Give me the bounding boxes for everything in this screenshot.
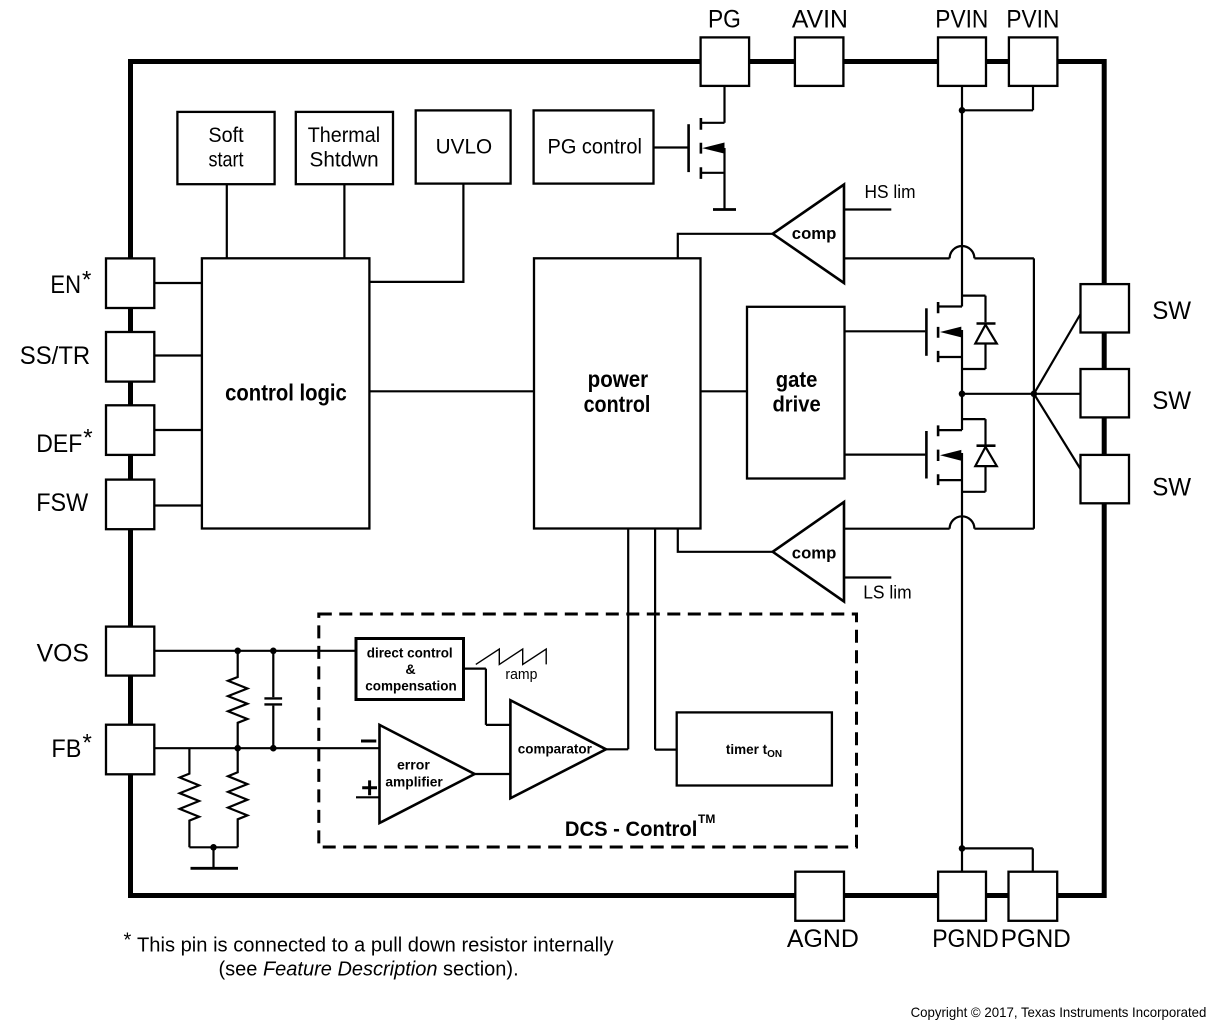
transistor Q1 channel bars: [700, 118, 703, 179]
svg-text:FB: FB: [51, 735, 81, 763]
transistor Q3 channel bars: [937, 425, 940, 485]
pin FSW: [106, 480, 154, 530]
svg-text:This pin is connected to a pul: This pin is connected to a pull down res…: [137, 934, 614, 956]
svg-text:gate: gate: [776, 367, 818, 392]
pin VOS: [106, 627, 154, 676]
transistor Q1 gate bar: [687, 124, 690, 172]
transistor Q3 source stub: [938, 479, 962, 481]
transistor Q1 body arrow: [702, 143, 724, 154]
svg-text:DEF: DEF: [36, 430, 82, 458]
wire SW node down to Q3 drain: [961, 394, 963, 430]
wire gate drive to Q3 gate: [845, 454, 926, 456]
wire PG pin to Q1 drain: [723, 86, 725, 123]
wire power control to gate drive: [701, 390, 748, 392]
svg-text:DCS - Control: DCS - Control: [565, 818, 698, 841]
svg-text:SS/TR: SS/TR: [20, 342, 90, 370]
diode D2 cathode bar: [977, 444, 996, 447]
svg-text:Copyright © 2017, Texas Instru: Copyright © 2017, Texas Instruments Inco…: [911, 1004, 1207, 1020]
node ground junction dot: [210, 844, 217, 851]
svg-text:control: control: [584, 391, 651, 417]
svg-text:AGND: AGND: [787, 925, 859, 953]
svg-text:PVIN: PVIN: [1006, 5, 1059, 33]
comparator U1 HS triangle: [773, 185, 844, 284]
svg-text:SW: SW: [1152, 473, 1191, 501]
pin AVIN: [795, 37, 844, 86]
minus sign: [361, 740, 376, 743]
svg-text:Thermal: Thermal: [308, 124, 380, 147]
wire thermal shtdwn to control logic: [343, 184, 345, 258]
wire soft start to control logic: [226, 184, 228, 258]
svg-text:control logic: control logic: [225, 380, 347, 406]
svg-text:VOS: VOS: [37, 640, 89, 668]
sawtooth ramp symbol: [476, 649, 546, 664]
diode D2 triangle: [975, 447, 997, 466]
node VOS-R1 junction dot: [234, 648, 241, 655]
pin SW 1: [1081, 284, 1130, 332]
block timer tON: [677, 712, 832, 785]
wire plus input stub: [356, 796, 380, 798]
wire Q1 source to ground: [723, 148, 725, 209]
svg-text:SW: SW: [1152, 387, 1191, 415]
svg-text:SW: SW: [1152, 297, 1191, 325]
wire VOS pin to direct control: [154, 650, 356, 652]
pin FB: [106, 725, 154, 775]
wire EN pin to control logic: [154, 282, 202, 284]
svg-text:start: start: [209, 148, 244, 171]
wire UVLO to control logic: [369, 184, 463, 282]
wire comparator output to power control: [606, 529, 628, 750]
pin SW 2: [1081, 369, 1130, 417]
wire error amplifier to comparator: [475, 773, 511, 775]
wire SS/TR pin to control logic: [154, 354, 202, 356]
transistor Q2 source stub: [938, 356, 962, 358]
transistor Q1 drain stub: [701, 122, 725, 124]
svg-text:*: *: [124, 930, 132, 952]
wire DEF pin to control logic: [154, 429, 202, 431]
pin AGND: [795, 872, 844, 921]
pin EN: [106, 258, 154, 308]
svg-text:TM: TM: [698, 812, 715, 826]
svg-text:EN: EN: [50, 271, 81, 299]
wire FSW pin to control logic: [154, 504, 202, 506]
pin PGND 1: [938, 872, 986, 921]
wire U1 input with hop over PVIN rail: [844, 246, 1034, 258]
transistor Q2 gate bar: [925, 308, 928, 356]
wire control logic to power control: [369, 390, 534, 392]
DCS-Control dashed box: [319, 614, 857, 847]
wire HS lim stub: [844, 208, 891, 210]
node SW junction dot: [959, 391, 966, 398]
wire gate drive to Q2 gate: [845, 330, 926, 332]
wire PVIN2 pin down to node A: [962, 86, 1033, 110]
block UVLO: [416, 110, 511, 183]
resistor R2: [228, 748, 247, 847]
pin SS/TR: [106, 332, 154, 382]
svg-text:UVLO: UVLO: [436, 136, 493, 159]
capacitor C1 top lead: [272, 651, 274, 697]
ground symbol at divider: [191, 867, 239, 870]
svg-text:&: &: [405, 662, 415, 678]
transistor Q3 drain stub: [938, 429, 962, 431]
wire PVIN rail down to Q2 drain: [961, 110, 963, 306]
wire PVIN1 pin down to node A: [961, 86, 963, 110]
svg-text:HS lim: HS lim: [865, 182, 916, 202]
node A junction dot: [959, 107, 966, 114]
svg-text:power: power: [588, 366, 649, 392]
diode D1 triangle: [975, 325, 997, 344]
wire resistor bottoms join: [189, 846, 237, 848]
capacitor C1 plates: [264, 698, 282, 704]
op-amp error amplifier: [380, 725, 475, 823]
node FB-C1 junction dot: [270, 745, 277, 752]
wire U2 input with hop over SW rail: [844, 516, 1034, 528]
diode D1 bottom branch: [962, 344, 986, 370]
wire U2 output to power control: [678, 529, 773, 552]
wire PGND node to PGND2 pin: [962, 848, 1033, 871]
block control logic: [202, 258, 370, 528]
svg-text:*: *: [82, 267, 91, 294]
wire FB pin to error amplifier: [154, 747, 379, 749]
svg-text:Shtdwn: Shtdwn: [310, 148, 379, 171]
svg-text:*: *: [83, 424, 92, 451]
wire diagonal to SW pin 3: [1034, 394, 1081, 469]
svg-text:drive: drive: [772, 392, 820, 417]
svg-text:(see Feature Description secti: (see Feature Description section).: [219, 959, 519, 981]
wire LS lim stub: [844, 576, 891, 578]
pin PGND 2: [1009, 872, 1058, 921]
svg-text:Soft: Soft: [208, 124, 243, 147]
block power control: [534, 258, 701, 528]
svg-text:amplifier: amplifier: [385, 775, 443, 791]
wire ground stub: [212, 847, 214, 867]
node FB-R1 junction dot: [234, 745, 241, 752]
wire PG control to Q1 gate: [654, 146, 688, 148]
comparator U2 LS triangle: [773, 502, 844, 602]
resistor R3 pulldown: [180, 748, 199, 847]
svg-text:error: error: [397, 758, 430, 774]
IC boundary border: [131, 62, 1105, 896]
node SW fan junction dot: [1031, 391, 1038, 398]
pin SW 3: [1081, 455, 1130, 503]
node PGND junction dot: [959, 845, 966, 852]
wire Q2 source to SW node: [961, 330, 963, 394]
wire Q3 source to PGND: [961, 453, 963, 872]
svg-text:LS lim: LS lim: [863, 582, 912, 602]
wire direct control ramp to comparator: [464, 669, 511, 725]
svg-text:PGND: PGND: [932, 925, 999, 953]
pin PG: [701, 37, 750, 86]
transistor Q2 body arrow: [940, 327, 961, 338]
pin DEF: [106, 405, 154, 455]
svg-text:*: *: [83, 730, 92, 757]
svg-text:PGND: PGND: [1001, 925, 1071, 953]
diode D1 top branch: [962, 296, 986, 323]
resistor R1: [228, 651, 247, 748]
svg-text:PG control: PG control: [548, 136, 642, 159]
wire U1 output to power control: [678, 234, 773, 258]
svg-text:AVIN: AVIN: [792, 5, 848, 33]
wire SW node to pins: [962, 393, 1081, 395]
diode D1 cathode bar: [977, 322, 996, 325]
diode D2 bottom branch: [962, 466, 986, 492]
svg-text:direct control: direct control: [367, 646, 453, 662]
plus sign: [362, 780, 377, 795]
wire power control to timer: [655, 529, 677, 750]
transistor Q1 source stub: [701, 172, 725, 174]
svg-text:compensation: compensation: [365, 678, 456, 694]
block Soft start: [177, 112, 274, 184]
block Thermal Shtdwn: [296, 112, 393, 184]
transistor Q3 body arrow: [940, 450, 961, 461]
wire right loop vertical: [1033, 258, 1035, 528]
pin PVIN 2: [1009, 37, 1058, 86]
capacitor C1 bottom lead: [272, 706, 274, 749]
diode D2 top branch: [962, 419, 986, 444]
transistor Q2 drain stub: [938, 305, 962, 307]
comparator U3 triangle: [510, 700, 606, 798]
svg-text:comparator: comparator: [518, 740, 593, 756]
ground symbol at Q1 source: [713, 208, 736, 211]
svg-text:comp: comp: [792, 543, 837, 562]
transistor Q3 gate bar: [925, 431, 928, 479]
svg-text:FSW: FSW: [36, 489, 88, 517]
svg-text:ramp: ramp: [505, 666, 537, 683]
svg-text:comp: comp: [792, 224, 837, 243]
block gate drive: [747, 307, 845, 479]
svg-text:PG: PG: [708, 5, 741, 33]
block direct control & compensation: [356, 639, 464, 700]
block PG control: [534, 110, 654, 183]
wire diagonal to SW pin 1: [1034, 314, 1081, 394]
transistor Q2 channel bars: [937, 302, 940, 362]
svg-text:PVIN: PVIN: [935, 5, 988, 33]
pin PVIN 1: [938, 37, 986, 86]
node VOS-C1 junction dot: [270, 648, 277, 655]
